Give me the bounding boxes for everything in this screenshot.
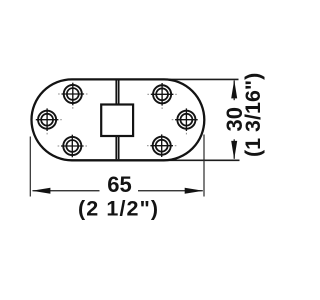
arrowhead top (30 dim)	[231, 80, 237, 99]
arrowhead left (65 dim)	[32, 188, 51, 194]
screw hole mid-left	[36, 108, 62, 134]
screw hole bottom-right	[147, 134, 176, 157]
dimension line 30 bottom segment	[233, 139, 235, 159]
extension line left (65 dim)	[29, 137, 31, 197]
extension line top (30 dim)	[164, 78, 239, 80]
hinge outline (stadium)	[32, 79, 205, 160]
svg-text:65: 65	[107, 172, 131, 197]
screw hole mid-right	[172, 108, 198, 134]
leaf gap line upper	[116, 80, 118, 104]
extension line right (65 dim)	[203, 135, 205, 197]
leaf gap line lower	[116, 136, 118, 159]
dimension line 65 left segment	[33, 190, 100, 192]
dimension line 30 top segment	[233, 81, 235, 101]
svg-text:(1 3/16"): (1 3/16")	[241, 73, 265, 157]
dimension line 65 right segment	[138, 190, 203, 192]
extension line bottom (30 dim)	[164, 159, 240, 161]
screw hole bottom-left	[58, 135, 87, 158]
arrowhead bottom (30 dim)	[231, 141, 237, 160]
arrowhead right (65 dim)	[185, 188, 204, 194]
screw hole top-right	[147, 83, 176, 109]
screw hole top-left	[58, 83, 87, 109]
svg-text:(2 1/2"): (2 1/2")	[78, 196, 159, 220]
knuckle square	[101, 105, 133, 137]
